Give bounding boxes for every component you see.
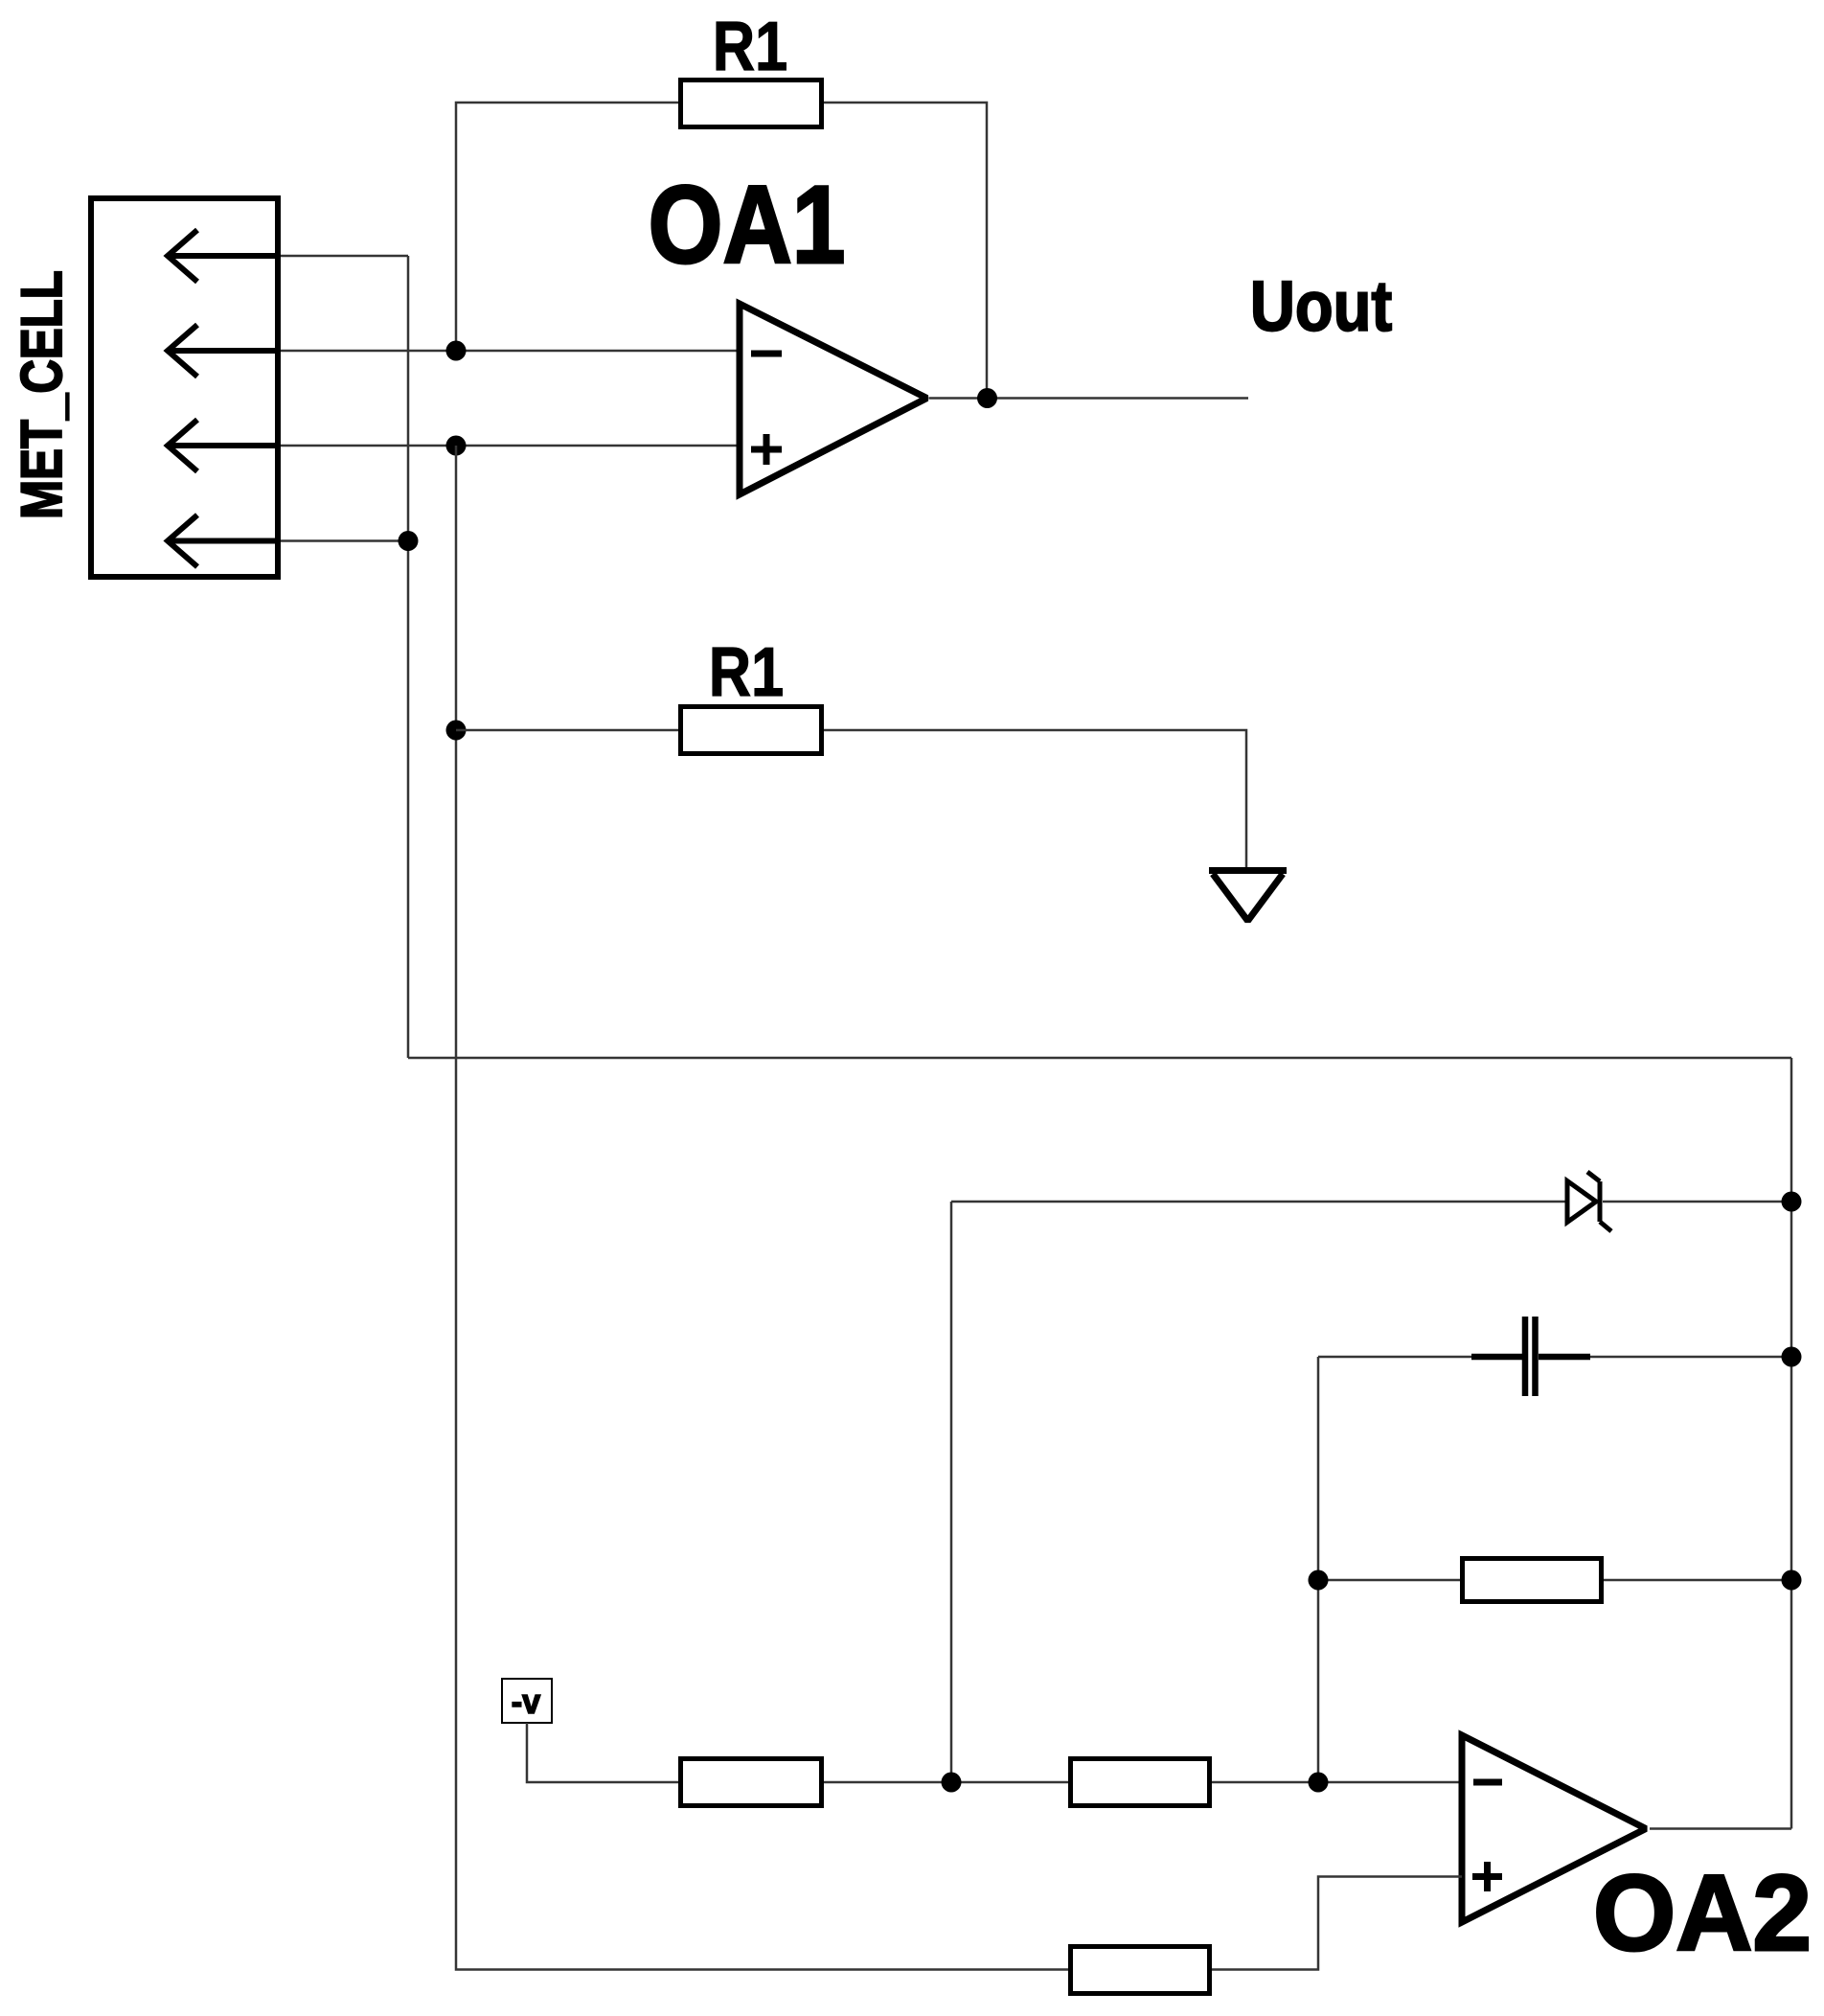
node OA1 plus junction bbox=[446, 436, 467, 456]
OA1 minus sign bbox=[751, 351, 782, 357]
resistor OA2 feedback bbox=[1463, 1559, 1602, 1602]
svg-text:R1: R1 bbox=[709, 634, 784, 711]
wire zener left bbox=[951, 1201, 1565, 1203]
svg-text:OA1: OA1 bbox=[649, 162, 846, 286]
wire R1 feedback right bbox=[824, 103, 987, 399]
pin arrow 2 bbox=[168, 325, 281, 377]
wire plus net vertical bbox=[456, 446, 1068, 1970]
wire vertical bus left bbox=[407, 256, 410, 1058]
wire OA1 plus input bbox=[281, 445, 740, 447]
pin arrow 4 bbox=[168, 515, 281, 567]
node OA2 minus junction bbox=[1309, 1773, 1329, 1793]
wire pin1 to vertical bus bbox=[281, 255, 408, 258]
node OA1 output junction bbox=[977, 388, 997, 408]
wire OA2 plus path bbox=[1212, 1877, 1462, 1970]
svg-text:R1: R1 bbox=[713, 9, 787, 85]
node mid R1 junction bbox=[446, 721, 467, 741]
OA2 minus sign bbox=[1473, 1779, 1502, 1786]
pin arrow 3 bbox=[168, 420, 281, 471]
wire zener drop vertical bbox=[950, 1202, 953, 1782]
wire mid R1 left bbox=[456, 729, 678, 732]
connector MET_CELL box bbox=[91, 198, 278, 577]
wire zener right bbox=[1603, 1201, 1791, 1203]
power -v box bbox=[502, 1679, 552, 1723]
wire feedback resistor left bbox=[1318, 1579, 1460, 1582]
zener diode bbox=[1567, 1172, 1611, 1231]
wire -v to resistor bbox=[527, 1723, 678, 1782]
op-amp OA1 bbox=[740, 304, 927, 494]
svg-text:Uout: Uout bbox=[1250, 266, 1392, 346]
wire OA2 output bbox=[1650, 1827, 1791, 1830]
OA2 plus sign bbox=[1472, 1862, 1502, 1891]
resistor R1 feedback bbox=[681, 80, 822, 127]
node capacitor junction bbox=[1782, 1347, 1802, 1367]
pin arrow 1 bbox=[168, 230, 281, 282]
wire mid R1 right to ground bbox=[824, 730, 1246, 871]
node zener drop junction bbox=[942, 1773, 962, 1793]
wire capacitor right bbox=[1590, 1356, 1791, 1359]
wire OA1 minus input bbox=[281, 350, 740, 353]
wire R1 feedback left bbox=[456, 103, 678, 351]
resistor OA2 plus input bbox=[1071, 1947, 1210, 1994]
wire capacitor left bbox=[1318, 1356, 1471, 1359]
wire to OA2 minus bbox=[1212, 1781, 1462, 1784]
svg-text:-v: -v bbox=[512, 1683, 541, 1721]
capacitor bbox=[1471, 1317, 1590, 1396]
resistor input 1 bbox=[681, 1759, 822, 1806]
node zener junction bbox=[1782, 1192, 1802, 1212]
node OA1 minus junction bbox=[446, 341, 467, 361]
OA1 plus sign bbox=[751, 434, 782, 465]
wire between input resistors bbox=[824, 1781, 1068, 1784]
wire feedback resistor right bbox=[1604, 1579, 1791, 1582]
wire OA1 output bbox=[929, 397, 1249, 400]
resistor R1 mid bbox=[681, 707, 822, 754]
svg-text:MET_CELL: MET_CELL bbox=[9, 270, 74, 519]
node pin4 junction bbox=[399, 531, 419, 551]
wire right vertical bus bbox=[1790, 1058, 1793, 1829]
svg-text:OA2: OA2 bbox=[1593, 1852, 1812, 1973]
node feedback right junction bbox=[1782, 1570, 1802, 1591]
resistor input 2 bbox=[1071, 1759, 1210, 1806]
wire capacitor branch vertical bbox=[1317, 1357, 1320, 1782]
op-amp OA2 bbox=[1462, 1735, 1646, 1922]
wire pin4 to bus bbox=[281, 539, 408, 542]
node feedback left junction bbox=[1309, 1570, 1329, 1591]
ground bbox=[1209, 871, 1287, 922]
wire long horizontal middle bbox=[408, 1057, 1791, 1060]
